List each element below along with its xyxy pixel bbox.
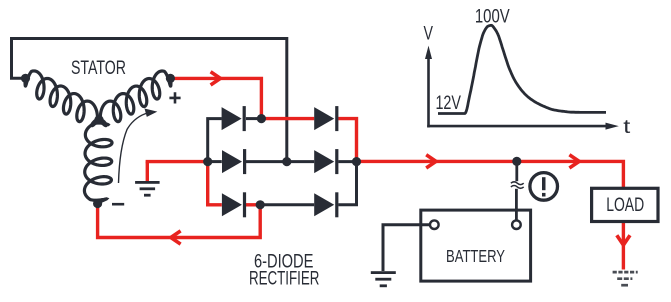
wire (red) D5 cathode to phase-C node — [246, 203, 260, 206]
node stator bottom (phase C, -) — [93, 199, 102, 208]
label RECTIFIER — [249, 268, 320, 289]
diode D1 (row1 left) — [222, 106, 246, 131]
battery + terminal post — [512, 220, 521, 229]
wire battery cable lower segment — [515, 189, 518, 221]
wire D1 cathode to phase-A node — [246, 117, 261, 120]
wire row2 D3 cathode to center node — [246, 160, 287, 163]
wire row1 (red) phase-A node to D2 anode — [261, 117, 314, 120]
svg-text:RECTIFIER: RECTIFIER — [249, 268, 320, 289]
stator winding coil (top-left phase) — [25, 71, 99, 126]
stator winding coil (bottom phase) — [84, 120, 112, 203]
diode D4 (row2 right) — [314, 149, 338, 174]
label BATTERY — [446, 246, 505, 266]
node row3 phase-C junction — [256, 200, 265, 209]
wire battery cable upper segment — [515, 161, 518, 181]
wire (red) output bus from rectifier to load corner — [357, 161, 624, 188]
rotation arrow inside stator — [119, 109, 158, 184]
label V (y axis) — [424, 23, 434, 44]
current arrow into load ground — [617, 235, 630, 245]
current arrow on phase-A wire — [211, 72, 221, 85]
node stator center (neutral) — [94, 115, 103, 124]
wire (red) ground stub — [146, 162, 149, 181]
wire row2 left: ground node to D3 anode — [208, 160, 222, 163]
broken-cable squiggle — [511, 182, 524, 189]
node rectifier output junction — [352, 157, 361, 166]
node row2 ground junction — [203, 157, 212, 166]
label + terminal — [169, 92, 180, 103]
wire (red) return path phase-C node down, left, up to stator - terminal — [98, 204, 261, 238]
load box — [592, 188, 658, 221]
wire row3 phase-C node to D6 anode — [260, 203, 314, 206]
label 100V (peak) — [475, 6, 510, 27]
ground (load) — [613, 272, 638, 285]
wire row3 D6 cathode up to output node — [338, 162, 356, 205]
node row1 phase-A junction — [257, 114, 266, 123]
stator winding coil (top-right phase) — [99, 71, 171, 126]
plot t axis (horizontal) — [427, 123, 619, 130]
wire (red) ground to left-bus node — [146, 160, 208, 163]
wire row2 center node to D4 anode — [287, 160, 314, 163]
svg-text:BATTERY: BATTERY — [446, 246, 505, 266]
plot V axis (vertical) — [425, 46, 432, 128]
load-dump voltage waveform — [438, 25, 606, 113]
label 12V (baseline) — [435, 93, 461, 114]
node stator top-right (phase A, +) — [166, 74, 175, 83]
wire left bus upper segment (ground bus to D1 anode) — [208, 119, 222, 162]
svg-text:LOAD: LOAD — [606, 195, 644, 216]
svg-text:V: V — [424, 23, 434, 44]
ground (stator frame) — [135, 181, 160, 197]
svg-text:12V: 12V — [435, 93, 461, 114]
battery - terminal post — [430, 220, 439, 229]
label - terminal — [112, 203, 124, 206]
diode D3 (row2 left) — [222, 149, 246, 174]
svg-text:STATOR: STATOR — [71, 58, 126, 79]
current arrow on return wire — [171, 231, 181, 244]
svg-text:100V: 100V — [475, 6, 510, 27]
diode D2 (row1 right) — [314, 106, 338, 131]
wire phase-A (red) from stator + terminal to D1/D2 junction — [170, 78, 261, 118]
battery box — [421, 210, 531, 281]
node stator top-left (phase B) — [21, 74, 30, 83]
node battery tap on output bus — [512, 157, 521, 166]
svg-text:t: t — [623, 117, 631, 138]
current arrow on output wire (right of battery tap) — [569, 155, 579, 168]
wire (red) load box to ground — [622, 222, 625, 270]
wire (red) left bus lower segment to D5 anode — [208, 162, 222, 205]
warning symbol (circled !) — [530, 173, 558, 201]
node row2 phase-B junction — [282, 157, 291, 166]
label LOAD — [606, 195, 644, 216]
ground (battery) — [371, 271, 396, 287]
diode D5 (row3 left) — [222, 192, 246, 217]
wire row2 D4 cathode to output node — [338, 160, 356, 163]
wire phase-B from stator top-left node over the top to rectifier center — [12, 39, 287, 162]
wire row1 (red) D2 cathode to right bus, down to output node — [338, 119, 356, 162]
current arrow on output wire (left of battery tap) — [426, 155, 436, 168]
wire battery - terminal to ground — [383, 225, 430, 271]
label 6-DIODE — [254, 251, 314, 272]
label t (x axis) — [623, 117, 631, 138]
label STATOR — [71, 58, 126, 79]
diode D6 (row3 right) — [314, 192, 338, 217]
